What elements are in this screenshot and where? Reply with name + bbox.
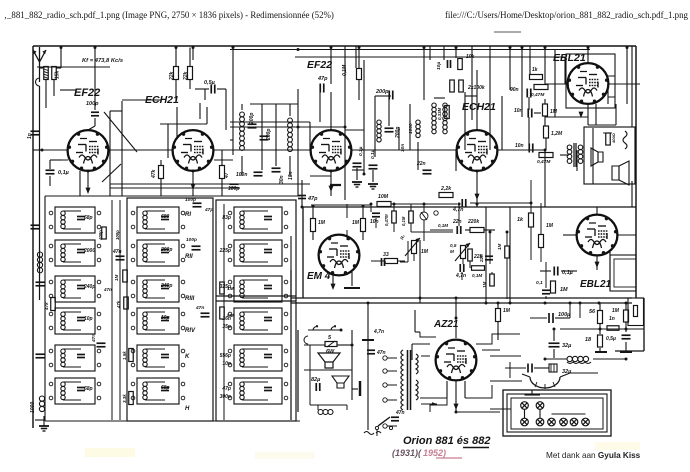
svg-text:RIV: RIV <box>185 328 196 334</box>
svg-text:10p: 10p <box>161 315 170 321</box>
svg-text:2000: 2000 <box>83 248 95 254</box>
svg-text:100p: 100p <box>186 237 197 243</box>
svg-text:2,2k: 2,2k <box>440 186 452 192</box>
svg-text:68p: 68p <box>84 386 93 392</box>
svg-text:18: 18 <box>585 337 592 343</box>
svg-text:0,1µ: 0,1µ <box>58 170 70 176</box>
svg-text:100p: 100p <box>185 197 196 203</box>
svg-text:0,33M: 0,33M <box>437 107 442 120</box>
svg-text:47: 47 <box>224 172 230 179</box>
svg-text:47n: 47n <box>195 305 204 311</box>
svg-text:0,5: 0,5 <box>450 243 457 248</box>
svg-text:56: 56 <box>589 309 596 315</box>
svg-text:1k: 1k <box>532 67 538 73</box>
svg-text:0,5µ: 0,5µ <box>204 80 216 86</box>
svg-text:0,1: 0,1 <box>536 280 543 286</box>
svg-text:RI: RI <box>185 212 191 218</box>
svg-text:0,1M: 0,1M <box>438 223 448 228</box>
svg-text:K: K <box>185 354 190 360</box>
svg-text:1M: 1M <box>227 286 235 292</box>
svg-text:H: H <box>185 406 190 412</box>
svg-text:(1931)(: (1931)( <box>392 448 422 458</box>
svg-text:400Ω: 400Ω <box>611 132 616 144</box>
svg-text:0,1M: 0,1M <box>472 273 482 278</box>
svg-text:47n: 47n <box>103 287 112 292</box>
svg-text:240p: 240p <box>83 284 95 290</box>
svg-text:200p: 200p <box>249 113 255 125</box>
svg-text:5M: 5M <box>227 313 235 319</box>
svg-text:100p: 100p <box>86 101 99 107</box>
svg-text:47n: 47n <box>91 334 97 343</box>
svg-text:100p: 100p <box>115 230 120 240</box>
svg-text:EBL21: EBL21 <box>580 279 612 290</box>
svg-text:AZ21: AZ21 <box>433 319 459 330</box>
svg-text:1000: 1000 <box>30 402 36 413</box>
svg-text:30n: 30n <box>279 175 285 184</box>
svg-text:0,47M: 0,47M <box>531 92 545 98</box>
svg-text:0,5µ: 0,5µ <box>606 336 616 342</box>
svg-text:0,47M: 0,47M <box>384 214 389 226</box>
svg-text:Met dank aan Gyula Kiss: Met dank aan Gyula Kiss <box>546 451 641 460</box>
svg-text:3,3k: 3,3k <box>122 394 127 403</box>
svg-text:file:///C:/Users/Home/Desktop/: file:///C:/Users/Home/Desktop/orion_881_… <box>445 10 689 20</box>
svg-text:6W: 6W <box>326 349 335 355</box>
svg-text:47n: 47n <box>112 249 122 255</box>
svg-text:240p: 240p <box>160 283 172 289</box>
svg-text:M: M <box>450 249 454 254</box>
svg-text:1M: 1M <box>550 109 558 115</box>
svg-text:10p: 10p <box>84 316 93 322</box>
svg-text:1k: 1k <box>517 217 524 223</box>
svg-text:1n: 1n <box>27 133 33 139</box>
svg-text:1M: 1M <box>421 249 429 255</box>
svg-text:1M: 1M <box>352 220 360 226</box>
svg-text:1M: 1M <box>546 223 554 229</box>
svg-text:22n: 22n <box>452 219 462 225</box>
svg-text:47p: 47p <box>221 386 231 392</box>
svg-text:EF22: EF22 <box>307 59 332 71</box>
svg-text:22n: 22n <box>479 254 484 263</box>
svg-text:1M: 1M <box>318 220 326 226</box>
svg-text:ECH21: ECH21 <box>462 101 496 113</box>
svg-text:82µ: 82µ <box>311 377 321 383</box>
svg-text:1M: 1M <box>497 243 502 250</box>
svg-text:10n: 10n <box>515 143 524 149</box>
svg-text:Kf = 473,8 Kc/s: Kf = 473,8 Kc/s <box>82 58 124 64</box>
svg-text:300p: 300p <box>220 394 231 400</box>
svg-text:47k: 47k <box>151 169 157 179</box>
svg-text:10M: 10M <box>378 194 389 200</box>
svg-text:10n: 10n <box>288 171 294 180</box>
svg-text:0,1µ: 0,1µ <box>370 149 376 159</box>
svg-text:90n: 90n <box>510 87 519 93</box>
svg-text:200p: 200p <box>395 127 401 139</box>
svg-text:4,7n: 4,7n <box>373 329 384 335</box>
svg-text:225p: 225p <box>219 248 231 254</box>
svg-text:0,47M: 0,47M <box>537 159 551 165</box>
svg-text:10µ: 10µ <box>436 62 442 70</box>
svg-text:100p: 100p <box>228 186 239 192</box>
svg-text:68p: 68p <box>84 215 93 221</box>
svg-text:1M: 1M <box>612 308 620 314</box>
svg-text:1M: 1M <box>560 287 568 293</box>
svg-text:47p: 47p <box>307 196 318 202</box>
svg-text:200p: 200p <box>160 247 172 253</box>
svg-text:Orion 881 és 882: Orion 881 és 882 <box>403 435 490 447</box>
svg-text:1,2M: 1,2M <box>551 131 563 137</box>
svg-text:1n: 1n <box>609 316 615 322</box>
svg-text:32µ: 32µ <box>562 343 572 349</box>
svg-text:RII: RII <box>185 254 193 260</box>
svg-text:2x100k: 2x100k <box>467 85 485 91</box>
svg-text:EF22: EF22 <box>74 87 100 99</box>
svg-text:10n: 10n <box>514 108 523 114</box>
svg-text:556p: 556p <box>220 353 231 359</box>
svg-text:10n: 10n <box>400 144 406 152</box>
svg-text:47n: 47n <box>395 410 405 416</box>
svg-text:47p: 47p <box>204 207 213 213</box>
svg-text:200p: 200p <box>375 89 389 95</box>
svg-text:68p: 68p <box>161 385 170 391</box>
svg-text:10n: 10n <box>370 219 379 225</box>
svg-text:1M: 1M <box>503 308 511 314</box>
svg-text:1000: 1000 <box>408 123 414 134</box>
svg-text:1952): 1952) <box>423 448 446 458</box>
svg-text:33: 33 <box>383 252 389 258</box>
svg-text:10k: 10k <box>466 54 475 60</box>
svg-text:RIII: RIII <box>185 296 195 302</box>
svg-text:220k: 220k <box>467 219 479 225</box>
svg-text:‚_881_882_radio_sch.pdf_1.png: ‚_881_882_radio_sch.pdf_1.png (Image PNG… <box>4 10 334 20</box>
svg-text:0,1µ: 0,1µ <box>358 146 364 156</box>
svg-text:15k: 15k <box>55 70 61 79</box>
svg-text:47p: 47p <box>317 76 328 82</box>
svg-text:0,1M: 0,1M <box>401 216 406 226</box>
svg-text:22k: 22k <box>169 71 175 81</box>
svg-text:1,5k: 1,5k <box>122 351 127 360</box>
svg-text:47k: 47k <box>116 300 121 309</box>
svg-text:47n: 47n <box>376 350 386 356</box>
svg-text:100µ: 100µ <box>558 312 571 318</box>
svg-text:680: 680 <box>161 214 170 220</box>
svg-text:4,7n: 4,7n <box>452 207 463 213</box>
svg-text:1M: 1M <box>114 274 119 281</box>
svg-text:22k: 22k <box>183 71 189 81</box>
svg-text:4,7n: 4,7n <box>455 273 466 279</box>
